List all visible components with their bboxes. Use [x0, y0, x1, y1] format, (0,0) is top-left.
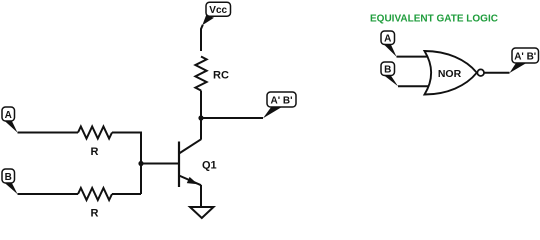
wire A input	[18, 132, 79, 134]
resistor R (input A branch)	[78, 127, 112, 139]
svg-text:A' B': A' B'	[514, 52, 536, 63]
node A'B' (output flag)	[263, 92, 296, 118]
wire gate output	[485, 72, 510, 74]
wire collector node to RC	[200, 91, 202, 119]
svg-text:RC: RC	[213, 70, 229, 82]
wire gate input B	[398, 85, 430, 87]
wire collector up	[200, 118, 202, 140]
node A'B' (gate output flag)	[510, 48, 539, 73]
svg-text:EQUIVALENT GATE LOGIC: EQUIVALENT GATE LOGIC	[370, 13, 498, 24]
svg-text:A' B': A' B'	[271, 96, 293, 107]
wire emitter down	[200, 185, 202, 207]
junction base node	[138, 161, 143, 166]
node B (input flag B)	[2, 169, 18, 194]
svg-text:Vcc: Vcc	[209, 5, 227, 16]
svg-text:NOR: NOR	[438, 68, 462, 80]
wire output	[201, 117, 263, 119]
resistor R (input B branch)	[78, 188, 112, 200]
resistor RC	[195, 56, 206, 90]
svg-text:R: R	[91, 146, 99, 158]
svg-text:R: R	[91, 208, 99, 220]
wire resistor R to corner down to junction	[112, 133, 141, 195]
node Vcc (power flag)	[202, 2, 230, 25]
svg-text:A: A	[384, 34, 391, 45]
svg-text:Q1: Q1	[202, 160, 217, 172]
wire base	[141, 163, 178, 165]
transistor Q1	[179, 139, 217, 187]
wire gate input A	[397, 56, 431, 58]
svg-text:B: B	[384, 65, 391, 76]
wire B input	[18, 193, 79, 195]
svg-text:B: B	[5, 172, 12, 183]
node A (gate input flag A)	[381, 31, 397, 57]
wire RC to Vcc	[201, 25, 203, 51]
ground	[190, 207, 214, 218]
svg-text:A: A	[5, 110, 12, 121]
node B (gate input flag B)	[381, 62, 398, 86]
node A (input flag A)	[2, 107, 18, 133]
node collector junction	[198, 115, 203, 120]
wire resistor R bottom to vertical	[112, 193, 141, 195]
gate NOR U1	[425, 51, 485, 95]
